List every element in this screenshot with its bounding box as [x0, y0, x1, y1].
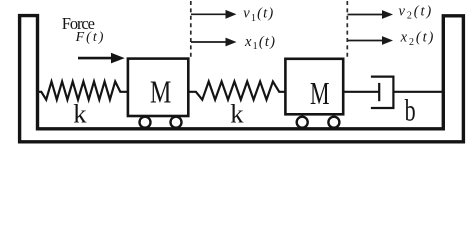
spring k1 (wall to M1) [38, 82, 128, 100]
svg-text:k: k [73, 98, 87, 128]
svg-text:x1(t): x1(t) [244, 34, 276, 52]
svg-text:k: k [230, 98, 244, 128]
svg-text:b: b [405, 92, 416, 127]
spring k2 (M1 to M2) [189, 82, 286, 100]
mass M2 [285, 59, 343, 115]
damper b rod left [343, 91, 379, 93]
wheel M2 left [297, 117, 308, 128]
svg-text:M: M [310, 76, 330, 111]
svg-text:v2(t): v2(t) [399, 3, 434, 21]
frame U-channel (ground walls and floor) [20, 16, 464, 142]
wheel M1 left [140, 117, 151, 128]
svg-text:F(t): F(t) [75, 30, 104, 45]
force arrow F(t) [78, 53, 125, 64]
arrow x1 [191, 38, 237, 47]
damper b rod right [393, 91, 443, 93]
dashed reference line node x1 [190, 1, 192, 57]
svg-text:M: M [150, 74, 171, 109]
arrow x2 [348, 36, 394, 45]
wheel M2 right [328, 117, 339, 128]
svg-text:x2(t): x2(t) [400, 30, 436, 48]
wheel M1 right [171, 117, 182, 128]
dashed reference line node x2 [346, 1, 348, 57]
damper b cylinder [371, 77, 394, 108]
damper b piston [378, 83, 380, 101]
svg-text:v1(t): v1(t) [243, 6, 274, 24]
arrow v2 [348, 10, 394, 19]
arrow v1 [191, 10, 237, 19]
mass M1 [128, 59, 188, 116]
